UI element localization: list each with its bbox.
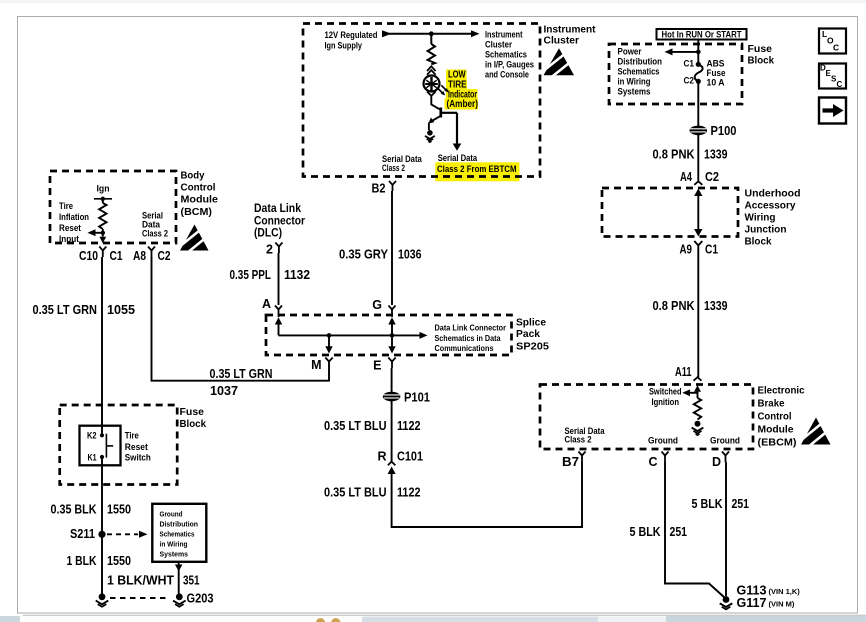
text Instrument Cluster Schematics in I/P, Gauges and Console (485, 30, 534, 80)
label 0.35 BLK 1550 (51, 503, 132, 517)
svg-text:(EBCM): (EBCM) (758, 438, 797, 449)
svg-text:1037: 1037 (210, 384, 238, 398)
pin C (648, 452, 668, 470)
svg-text:A11: A11 (675, 365, 692, 379)
svg-text:Systems: Systems (160, 550, 189, 559)
text 12V Regulated Ign Supply (325, 30, 378, 51)
svg-text:Module: Module (758, 425, 794, 436)
text Switched Ignition (649, 387, 682, 408)
svg-text:0.35 PPL: 0.35 PPL (230, 268, 272, 282)
ESD triangle (cluster) (542, 48, 574, 77)
svg-text:C1: C1 (684, 59, 695, 69)
svg-text:Schematics in Data: Schematics in Data (435, 334, 501, 343)
svg-text:Inflation: Inflation (59, 212, 89, 222)
label Fuse Block (left) (180, 407, 207, 430)
svg-text:Control: Control (181, 183, 216, 194)
fuse block box (tire reset) (60, 405, 178, 485)
svg-text:Data Link Connector: Data Link Connector (435, 324, 507, 333)
svg-text:G: G (372, 298, 382, 312)
svg-text:in I/P, Gauges: in I/P, Gauges (485, 60, 534, 70)
wire ground dist to G203 (175, 562, 183, 594)
BCM resistor (99, 203, 106, 229)
label G113 (VIN 1,K) (737, 584, 801, 598)
splice S211 (70, 527, 148, 541)
svg-text:0.35 LT GRN: 0.35 LT GRN (33, 303, 98, 317)
wire DLC to splice A (278, 253, 280, 305)
label Instrument Cluster (544, 25, 597, 47)
label G117 (VIN M) (737, 596, 795, 610)
label Fuse Block (748, 44, 775, 67)
svg-text:Input: Input (59, 234, 79, 244)
connector pair below lamp (427, 92, 436, 96)
connector R C101 (377, 450, 423, 475)
svg-text:SP205: SP205 (516, 342, 549, 353)
svg-text:Class 2 From EBTCM: Class 2 From EBTCM (437, 164, 517, 175)
svg-text:(VIN 1,K): (VIN 1,K) (769, 587, 801, 596)
tire reset switch box (80, 426, 121, 466)
label 1 BLK 1550 (67, 554, 132, 568)
BCM box (50, 171, 176, 243)
highlight LOW TIRE Indicator (Amber) (445, 70, 479, 110)
svg-text:Wiring: Wiring (745, 213, 776, 224)
svg-text:Splice: Splice (516, 318, 546, 329)
svg-text:Instrument: Instrument (544, 25, 597, 36)
label Electronic Brake Control Module (EBCM) (758, 386, 805, 449)
wire P100 to A4 (697, 135, 699, 181)
svg-text:Schematics: Schematics (160, 530, 195, 539)
svg-text:Reset: Reset (125, 442, 148, 452)
EBCM internal ground (692, 421, 704, 436)
ground (cluster) (425, 130, 435, 142)
svg-text:2: 2 (266, 243, 273, 257)
svg-text:Brake: Brake (758, 399, 785, 410)
instrument cluster box (303, 24, 540, 177)
text Serial Data Class 2 From EBTCM (437, 153, 517, 175)
svg-text:Cluster: Cluster (544, 36, 580, 47)
fuse ABS 10A (684, 59, 726, 88)
text Serial Data Class 2 (EBCM) (565, 426, 606, 445)
text Tire Inflation Reset Input (59, 201, 89, 244)
svg-text:in Wiring: in Wiring (160, 540, 188, 549)
svg-text:ABS: ABS (707, 59, 725, 69)
base wire to serial data (442, 113, 461, 151)
wire P101 to C101 (391, 401, 393, 462)
svg-text:Class 2: Class 2 (565, 435, 592, 445)
junction block pass-through wire (694, 189, 702, 237)
svg-text:Ground: Ground (648, 436, 678, 446)
pin B7 (562, 452, 586, 470)
pin E (373, 335, 396, 372)
svg-text:A9: A9 (680, 243, 693, 257)
label 0.35 LT GRN 1055 (33, 303, 136, 317)
svg-text:Underhood: Underhood (745, 189, 801, 200)
svg-text:Distribution: Distribution (160, 520, 199, 529)
svg-text:251: 251 (670, 525, 688, 539)
svg-text:Serial Data: Serial Data (438, 153, 478, 163)
svg-text:0.35 BLK: 0.35 BLK (51, 503, 97, 517)
DLC pin 2 (266, 243, 282, 257)
label 0.8 PNK 1339 (lower) (653, 299, 728, 313)
svg-text:C2: C2 (158, 249, 171, 263)
svg-text:0.8 PNK: 0.8 PNK (653, 299, 695, 313)
svg-text:(Amber): (Amber) (447, 99, 479, 110)
svg-text:in Wiring: in Wiring (618, 77, 651, 87)
svg-text:C: C (833, 43, 839, 53)
svg-text:Power: Power (618, 47, 642, 57)
label 1 BLK/WHT 351 (107, 574, 200, 588)
pin B2 (372, 181, 397, 196)
svg-text:(DLC): (DLC) (254, 228, 282, 240)
svg-text:Body: Body (181, 171, 205, 182)
LOC button (819, 29, 846, 54)
svg-text:B2: B2 (372, 182, 386, 196)
connector pair above lamp (427, 66, 436, 75)
ground S211 branch (96, 593, 109, 606)
svg-text:1 BLK: 1 BLK (67, 554, 97, 568)
bottom page strip (0, 614, 866, 622)
svg-text:0.35 LT BLU: 0.35 LT BLU (324, 419, 387, 433)
wire E to P101 (391, 368, 393, 392)
svg-text:Fuse: Fuse (748, 44, 773, 55)
svg-text:Schematics: Schematics (618, 67, 660, 77)
ground G113/G117 (720, 596, 733, 609)
label 5 BLK 251 (C) (630, 525, 688, 539)
svg-text:Electronic: Electronic (758, 386, 805, 397)
label 0.35 GRY 1036 (339, 248, 422, 262)
svg-text:1122: 1122 (397, 486, 421, 500)
svg-text:D: D (712, 455, 721, 469)
svg-text:1339: 1339 (704, 299, 728, 313)
svg-text:A: A (262, 297, 271, 311)
svg-text:(BCM): (BCM) (181, 207, 213, 218)
svg-text:Communications: Communications (435, 344, 494, 353)
wire D ground (725, 462, 727, 596)
underhood junction block box (602, 188, 738, 237)
wire C2 serial to splice M (152, 257, 330, 381)
svg-text:Data Link: Data Link (254, 203, 302, 215)
text Tire Reset Switch (125, 431, 151, 463)
splice pack box (266, 315, 512, 355)
svg-text:Ign Supply: Ign Supply (325, 41, 363, 51)
svg-text:(VIN M): (VIN M) (769, 600, 795, 609)
svg-text:Class 2: Class 2 (382, 163, 405, 173)
grommet P101 (383, 391, 430, 405)
label 0.35 PPL 1132 (230, 268, 311, 282)
svg-text:R: R (377, 450, 386, 464)
label 5 BLK 251 (D) (692, 497, 750, 511)
svg-text:Block: Block (180, 419, 207, 430)
svg-text:1036: 1036 (398, 248, 422, 262)
pin A8/C2 (133, 247, 171, 264)
svg-text:Pack: Pack (516, 329, 540, 340)
wire C1 to switch (101, 257, 103, 435)
svg-text:Distribution: Distribution (618, 57, 663, 67)
svg-text:P101: P101 (404, 391, 430, 405)
svg-text:251: 251 (732, 497, 750, 511)
wire 12V supply feed (382, 30, 480, 37)
EBCM switched ignition feed (682, 385, 701, 398)
fuse block box (609, 44, 742, 104)
svg-text:1122: 1122 (397, 419, 421, 433)
svg-text:C2: C2 (705, 170, 719, 184)
svg-text:Ignition: Ignition (652, 397, 680, 407)
label Underhood Accessory Wiring Junction Block (745, 189, 801, 248)
text Serial Data Class 2 (BCM) (142, 211, 168, 239)
svg-text:Connector: Connector (254, 216, 305, 228)
svg-text:Schematics: Schematics (485, 50, 527, 60)
label 0.35 LT GRN 1037 (210, 367, 273, 398)
svg-text:A8: A8 (133, 249, 146, 263)
svg-text:Ign: Ign (97, 184, 110, 194)
grommet P100 (690, 124, 737, 138)
svg-text:B7: B7 (562, 455, 579, 469)
svg-text:Fuse: Fuse (180, 407, 205, 418)
pin M (311, 335, 333, 372)
label 0.35 LT BLU 1122 (lower) (324, 486, 421, 500)
svg-text:Tire: Tire (59, 201, 73, 211)
svg-text:1550: 1550 (107, 503, 131, 517)
transistor (cluster driver) (428, 108, 441, 131)
svg-text:0.35 LT BLU: 0.35 LT BLU (324, 486, 387, 500)
svg-text:C2: C2 (684, 76, 695, 86)
svg-text:Switch: Switch (125, 453, 151, 463)
label 0.8 PNK 1339 (upper) (653, 148, 728, 162)
svg-text:K2: K2 (87, 431, 97, 441)
next arrow button (819, 98, 846, 124)
svg-text:Switched: Switched (649, 387, 682, 397)
svg-text:5 BLK: 5 BLK (630, 525, 661, 539)
svg-text:Control: Control (758, 412, 792, 423)
text Power Distribution Schematics in Wiring Systems (618, 47, 663, 97)
svg-text:S211: S211 (70, 527, 95, 541)
svg-text:Reset: Reset (59, 223, 81, 233)
ground G203 (173, 592, 214, 607)
svg-text:0.35 LT GRN: 0.35 LT GRN (210, 367, 273, 381)
svg-text:351: 351 (183, 574, 200, 588)
svg-text:Tire: Tire (125, 431, 139, 441)
splice bus (279, 332, 428, 339)
svg-text:Hot In RUN Or START: Hot In RUN Or START (662, 30, 742, 40)
svg-text:Ground: Ground (710, 436, 740, 446)
svg-text:Instrument: Instrument (485, 30, 523, 40)
EBCM resistor (694, 398, 701, 420)
svg-text:A4: A4 (680, 170, 692, 184)
svg-text:1132: 1132 (284, 268, 310, 282)
text LOW TIRE Indicator (Amber) (447, 70, 479, 111)
svg-text:G117: G117 (737, 596, 767, 610)
label Splice Pack SP205 (516, 318, 549, 353)
svg-text:C1: C1 (705, 243, 718, 257)
svg-text:C: C (648, 455, 657, 469)
text Data Link Connector Schematics in Data Communications (435, 324, 507, 354)
svg-text:12V Regulated: 12V Regulated (325, 30, 378, 40)
pin A (262, 297, 282, 335)
dashed ground tie (110, 597, 168, 599)
svg-text:10 A: 10 A (707, 78, 725, 88)
ESD triangle (BCM) (179, 225, 209, 254)
svg-text:Module: Module (181, 195, 219, 206)
wire B2 to splice G (391, 191, 393, 305)
svg-text:1 BLK/WHT: 1 BLK/WHT (107, 574, 174, 588)
svg-text:Cluster: Cluster (485, 40, 512, 50)
wire hot feed (665, 40, 701, 64)
svg-text:Junction: Junction (745, 225, 787, 236)
lamp light arrows (438, 85, 449, 95)
svg-text:Systems: Systems (618, 87, 651, 97)
wire lamp to transistor (431, 96, 440, 110)
svg-text:G203: G203 (187, 592, 214, 606)
pin C10/C1 (79, 247, 123, 264)
svg-text:0.35 GRY: 0.35 GRY (339, 248, 389, 262)
label Data Link Connector (DLC) (254, 203, 305, 240)
svg-text:E: E (373, 359, 381, 373)
EBCM box (540, 385, 753, 450)
svg-text:C: C (837, 80, 843, 89)
top page band (0, 0, 866, 3)
svg-text:1339: 1339 (704, 148, 728, 162)
BCM tire reset branch (88, 229, 107, 243)
ESD triangle (EBCM) (800, 418, 831, 448)
svg-text:P100: P100 (711, 124, 737, 138)
svg-text:0.8 PNK: 0.8 PNK (653, 148, 695, 162)
svg-text:and Console: and Console (485, 70, 529, 80)
svg-text:Accessory: Accessory (745, 201, 796, 212)
svg-text:5 BLK: 5 BLK (692, 497, 723, 511)
wire B7 serial data (392, 462, 582, 527)
svg-text:C1: C1 (110, 249, 123, 263)
pin G (372, 298, 395, 335)
svg-text:C10: C10 (79, 249, 98, 263)
svg-text:Block: Block (748, 56, 775, 67)
label Body Control Module (BCM) (181, 171, 219, 219)
svg-text:M: M (311, 358, 321, 372)
ign stub (94, 197, 112, 203)
DESC button (819, 64, 846, 90)
svg-text:Fuse: Fuse (707, 68, 726, 78)
indicator lamp (424, 76, 440, 92)
highlight Class 2 From EBTCM (435, 162, 519, 181)
connector A4 C2 (680, 170, 719, 185)
resistor (cluster lamp feed) (428, 34, 435, 65)
svg-text:Class 2: Class 2 (142, 229, 168, 239)
label 0.35 LT BLU 1122 (upper) (324, 419, 421, 433)
svg-text:Block: Block (745, 237, 772, 248)
svg-text:K1: K1 (88, 453, 97, 463)
text Serial Data Class 2 (cluster B2) (382, 154, 423, 173)
ground distribution box (152, 504, 206, 562)
connector A9 C1 (680, 241, 719, 377)
wire C ground (665, 462, 725, 598)
wire fuse to P100 (697, 81, 699, 126)
pin D (712, 452, 729, 470)
Hot In RUN Or START box (657, 29, 747, 40)
svg-text:1055: 1055 (107, 303, 135, 317)
switch contacts K2 K1 (87, 431, 113, 463)
svg-text:Ground: Ground (160, 510, 183, 519)
svg-text:C101: C101 (397, 450, 423, 464)
svg-text:1550: 1550 (107, 554, 131, 568)
connector A11 (675, 365, 702, 381)
wire K1 to ground (101, 457, 103, 596)
